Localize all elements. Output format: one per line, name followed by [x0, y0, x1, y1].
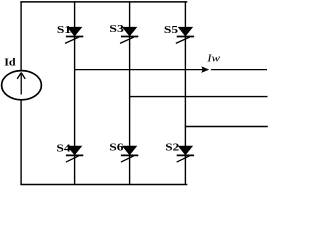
wire: node B vertical (S3 cathode to S6 anode): [129, 37, 131, 147]
wire: S5 anode lead from top rail: [184, 1, 186, 29]
wire: S4 cathode lead to bottom rail: [74, 155, 76, 185]
wire: phase output line from node B: [129, 96, 268, 98]
current source Id: [2, 71, 42, 100]
wire: phase output line from node A: [74, 69, 267, 71]
wire: top DC rail: [20, 1, 187, 3]
wire: left bus upper segment: [20, 1, 22, 71]
thyristor S1: [65, 27, 83, 43]
thyristor S6: [121, 146, 138, 162]
wire: S3 anode lead from top rail: [129, 1, 131, 29]
thyristor S4: [66, 146, 83, 162]
wire: S6 cathode lead to bottom rail: [129, 155, 131, 185]
thyristor S5: [176, 27, 194, 43]
svg-text:S2: S2: [165, 142, 179, 153]
wire: node C vertical (S5 cathode to S2 anode): [184, 37, 186, 147]
arrowhead: Iw current direction: [201, 66, 209, 73]
wire: node A vertical (S1 cathode to S4 anode): [74, 37, 76, 147]
wire: left bus lower segment: [20, 100, 22, 185]
svg-text:S6: S6: [109, 141, 123, 153]
svg-text:S3: S3: [109, 23, 124, 35]
svg-text:Iw: Iw: [206, 53, 220, 65]
svg-text:S1: S1: [57, 24, 71, 36]
wire: phase output line from node C: [185, 126, 268, 128]
thyristor S3: [120, 27, 138, 43]
wire: S2 cathode lead to bottom rail: [184, 155, 186, 185]
svg-text:S4: S4: [56, 142, 70, 154]
wire: bottom DC rail: [20, 184, 187, 186]
svg-text:S5: S5: [164, 24, 178, 36]
svg-text:Id: Id: [4, 57, 16, 68]
wire: S1 anode lead from top rail: [74, 1, 76, 29]
thyristor S2: [177, 146, 194, 162]
